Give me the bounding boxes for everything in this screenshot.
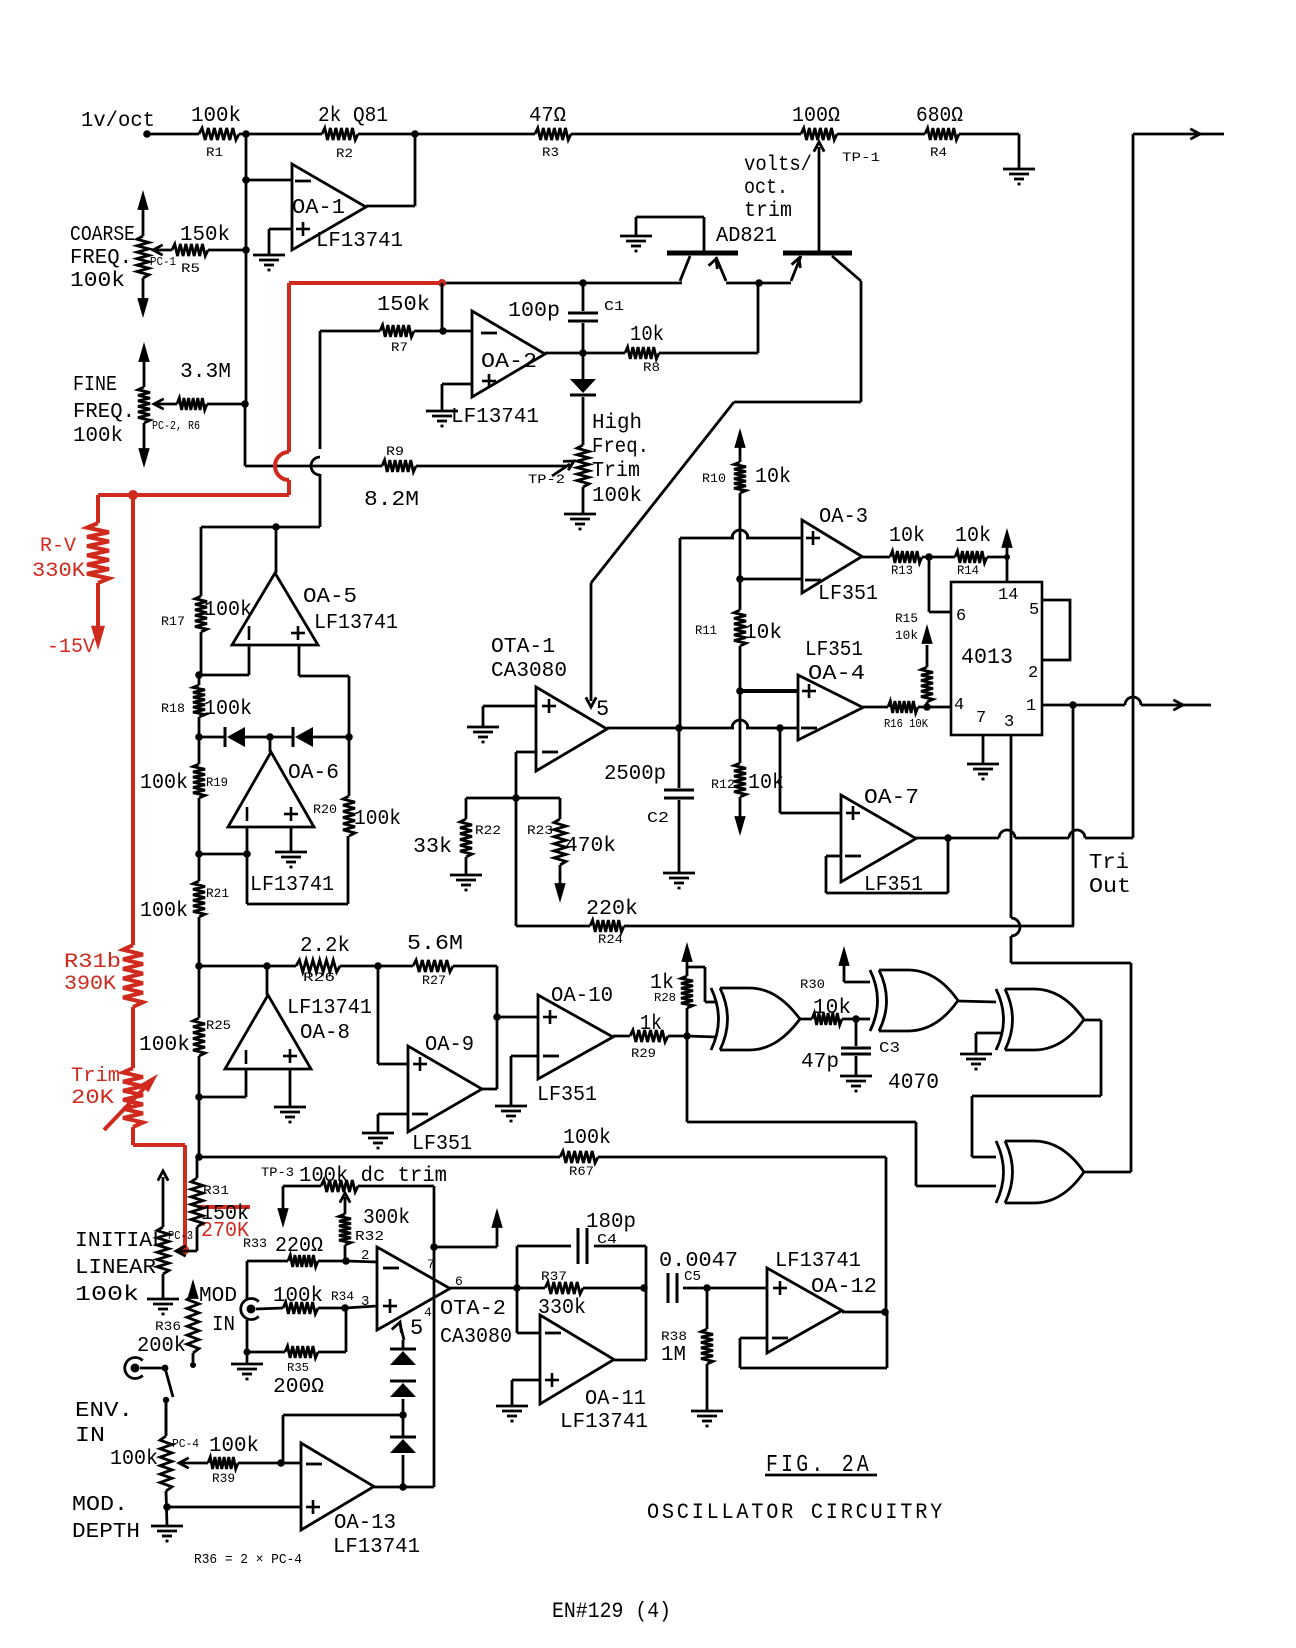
node — [266, 733, 274, 741]
svg-text:5.6M: 5.6M — [407, 933, 463, 956]
potentiometer PC-3 INITIAL LINEAR 100k — [75, 1171, 193, 1307]
svg-text:OA-8: OA-8 — [300, 1022, 350, 1045]
resistor R18 100k — [161, 675, 252, 737]
svg-text:10k: 10k — [889, 525, 925, 548]
wire OA-1 output — [366, 134, 415, 206]
resistor R17 100k — [161, 527, 252, 675]
jack ENV IN — [75, 1357, 168, 1448]
op-amp OA-13 LF13741 — [301, 1443, 420, 1559]
svg-text:C3: C3 — [879, 1040, 900, 1057]
svg-text:Trim: Trim — [71, 1065, 120, 1088]
capacitor C4 180p — [517, 1211, 646, 1288]
svg-text:INITIAL: INITIAL — [75, 1230, 165, 1253]
svg-text:R17: R17 — [161, 614, 185, 629]
svg-text:1: 1 — [1026, 697, 1036, 716]
svg-text:LF351: LF351 — [818, 583, 878, 606]
diode CR6 — [293, 727, 349, 747]
svg-text:R14: R14 — [957, 563, 979, 578]
wire — [837, 133, 925, 136]
wire TP-1 wiper — [814, 142, 824, 251]
op-amp OTA-2 CA3080 — [377, 1247, 512, 1349]
svg-text:FREQ.: FREQ. — [70, 247, 132, 270]
svg-text:R20: R20 — [313, 802, 337, 817]
capacitor C3 47p — [801, 1019, 900, 1076]
svg-text:100k: 100k — [140, 772, 188, 795]
node — [342, 1257, 350, 1265]
wire — [199, 1156, 560, 1159]
wire — [515, 798, 518, 926]
node — [923, 703, 931, 711]
wire OA-12 out — [842, 1311, 887, 1314]
wire emitter line — [442, 282, 682, 285]
diode CR5 — [199, 727, 245, 747]
svg-text:R29: R29 — [631, 1046, 656, 1061]
wire — [283, 1415, 403, 1463]
transistor Q2 AD821 — [783, 253, 861, 281]
wire OTA-1 output — [607, 720, 798, 728]
svg-text:R30: R30 — [800, 977, 825, 992]
svg-text:7: 7 — [976, 709, 986, 728]
wire — [441, 283, 444, 331]
svg-text:LF351: LF351 — [805, 639, 863, 662]
node — [925, 553, 933, 561]
xor gate G1 — [711, 988, 800, 1050]
node — [438, 279, 446, 287]
svg-text:C1: C1 — [604, 299, 624, 315]
wire — [687, 967, 716, 1002]
op-amp OA-4 LF351 — [798, 639, 865, 740]
resistor R27 5.6M — [378, 933, 497, 988]
resistor R20 100k — [313, 737, 401, 836]
svg-text:R1: R1 — [206, 145, 223, 160]
capacitor C2 2500p — [604, 728, 694, 873]
resistor R9 8.2M — [364, 444, 570, 512]
node — [736, 575, 744, 583]
svg-text:DEPTH: DEPTH — [72, 1521, 140, 1544]
svg-text:3: 3 — [361, 1294, 369, 1310]
op-amp OA-11 LF13741 — [540, 1315, 648, 1434]
svg-text:OA-11: OA-11 — [585, 1388, 646, 1411]
svg-text:100k: 100k — [204, 698, 252, 721]
svg-text:150k: 150k — [377, 294, 430, 317]
svg-text:PC-3: PC-3 — [168, 1229, 193, 1243]
wire OA-7 feedback — [826, 838, 948, 893]
resistor R4 680 — [916, 105, 963, 160]
svg-text:LF13741: LF13741 — [314, 612, 398, 635]
ground — [151, 1526, 183, 1541]
svg-text:10k: 10k — [955, 525, 991, 548]
resistor R13 10k — [862, 525, 925, 578]
wire OA-3 -in — [740, 578, 802, 581]
node — [579, 349, 587, 357]
svg-text:4070: 4070 — [888, 1070, 939, 1095]
wire — [245, 404, 382, 466]
node — [341, 1304, 349, 1312]
svg-text:LF13741: LF13741 — [451, 406, 539, 429]
op-amp OA-6 — [228, 737, 339, 897]
wire — [199, 645, 249, 675]
wire OA-11 out — [614, 1288, 646, 1360]
svg-text:TP-2: TP-2 — [528, 472, 565, 487]
wire — [856, 1018, 870, 1021]
ground — [496, 1406, 528, 1421]
svg-text:OA-3: OA-3 — [819, 506, 868, 529]
svg-text:10k: 10k — [630, 324, 664, 347]
ground — [467, 727, 499, 742]
svg-text:150k: 150k — [201, 1203, 249, 1226]
wire G2 in1 supply — [838, 946, 870, 982]
svg-text:OA-5: OA-5 — [303, 586, 357, 609]
svg-text:OA-7: OA-7 — [864, 787, 919, 810]
svg-text:IN: IN — [75, 1425, 105, 1448]
wire OA-4 +in — [740, 689, 798, 693]
svg-text:PC-2, R6: PC-2, R6 — [152, 419, 200, 433]
wire pin 3 clock — [1011, 735, 1131, 1172]
svg-text:R4: R4 — [930, 145, 947, 160]
ground — [274, 1107, 306, 1122]
svg-text:R33: R33 — [243, 1236, 267, 1251]
wire — [571, 133, 801, 136]
svg-text:MOD: MOD — [199, 1285, 237, 1308]
svg-text:OA-12: OA-12 — [811, 1276, 877, 1299]
label EN#129 (4) — [552, 1599, 671, 1624]
resistor R19 100k — [140, 737, 228, 854]
wire R-V supply (red) — [98, 283, 442, 495]
capacitor C1 100p — [508, 283, 624, 353]
resistor R31 150k — [191, 1157, 249, 1251]
node — [345, 733, 353, 741]
wire — [246, 179, 292, 182]
diode CR4 — [390, 1415, 416, 1487]
svg-text:R28: R28 — [654, 991, 676, 1005]
svg-text:100p: 100p — [508, 300, 560, 323]
node — [272, 523, 280, 531]
svg-text:R3: R3 — [542, 145, 559, 160]
resistor R30 10k — [800, 977, 856, 1025]
node — [195, 1093, 203, 1101]
svg-text:2500p: 2500p — [604, 763, 666, 786]
svg-text:33k: 33k — [413, 836, 452, 859]
svg-text:OA-1: OA-1 — [292, 197, 345, 220]
ground — [495, 1106, 527, 1121]
wire — [239, 133, 322, 136]
svg-text:C4: C4 — [597, 1232, 617, 1248]
node — [683, 1032, 691, 1040]
op-amp OA-7 LF351 — [841, 787, 923, 897]
wire — [345, 1308, 348, 1352]
node — [195, 671, 203, 679]
wire — [442, 384, 472, 411]
node — [513, 1284, 521, 1292]
wire OA-6 feedback — [247, 836, 348, 904]
svg-text:220Ω: 220Ω — [275, 1235, 323, 1258]
label MOD DEPTH — [72, 1494, 140, 1544]
wire — [687, 1036, 716, 1037]
svg-text:R-V: R-V — [40, 535, 76, 558]
resistor R-V 330K (red) — [32, 495, 109, 650]
wire — [483, 706, 536, 727]
wire G4 out — [1084, 1171, 1131, 1174]
svg-text:R25: R25 — [206, 1018, 231, 1033]
node B — [411, 130, 419, 138]
svg-text:R26: R26 — [303, 970, 335, 985]
resistor R37 330k — [517, 1269, 644, 1320]
svg-text:R9: R9 — [386, 444, 404, 459]
wire — [885, 1157, 888, 1312]
diode CR2 — [390, 1340, 416, 1365]
wire G3 in2 ground — [976, 1033, 1002, 1054]
resistor R7 150k — [320, 294, 472, 355]
svg-text:R35: R35 — [287, 1361, 309, 1375]
wire — [496, 966, 499, 1089]
label 270K replacement (red) — [198, 1207, 250, 1243]
wire pin5 — [392, 1316, 423, 1341]
ground — [253, 255, 285, 270]
svg-text:TP-1: TP-1 — [842, 150, 880, 165]
svg-text:R11: R11 — [695, 623, 717, 638]
wire — [1072, 705, 1075, 926]
resistor R5 150k — [153, 224, 246, 276]
wire — [358, 133, 535, 136]
node -15V (red) — [47, 636, 95, 659]
wire right bus — [1133, 129, 1224, 838]
wire — [433, 1186, 436, 1247]
svg-text:R24: R24 — [598, 932, 623, 947]
wire — [345, 1294, 377, 1310]
resistor R28 1k — [650, 942, 693, 1036]
op-amp OA-5 — [232, 527, 398, 645]
wire — [958, 1001, 996, 1002]
svg-text:OTA-1: OTA-1 — [491, 636, 555, 659]
svg-text:OA-6: OA-6 — [288, 762, 339, 785]
resistor R22 33k — [413, 798, 516, 875]
ground — [450, 875, 482, 890]
resistor R67 100k — [560, 1127, 886, 1179]
wire feedback — [740, 1312, 887, 1368]
wire — [289, 1069, 292, 1107]
svg-text:OA-2: OA-2 — [481, 351, 537, 374]
node — [675, 724, 683, 732]
ground — [1003, 169, 1035, 184]
wire — [757, 283, 760, 353]
node — [1069, 701, 1077, 709]
svg-text:3.3M: 3.3M — [180, 361, 231, 384]
potentiometer PC-4 100k — [110, 1400, 199, 1526]
potentiometer PC-2 FINE FREQ 100k — [73, 342, 200, 468]
wire — [245, 736, 293, 739]
svg-text:100k: 100k — [273, 1285, 323, 1308]
wire G4 in2 — [687, 1036, 996, 1186]
op-amp OA-10 LF351 — [537, 985, 613, 1107]
resistor R23 470k — [516, 798, 616, 903]
wire — [245, 134, 248, 404]
svg-text:3: 3 — [1004, 713, 1014, 732]
svg-text:R16 10K: R16 10K — [884, 717, 929, 731]
node — [195, 733, 203, 741]
ground — [147, 1299, 179, 1314]
wire — [281, 1462, 301, 1465]
svg-text:C5: C5 — [684, 1269, 701, 1285]
svg-text:LF351: LF351 — [537, 1084, 597, 1107]
wire OTA-2 out — [450, 1287, 517, 1290]
label 4070 — [888, 1070, 939, 1095]
svg-text:-15V: -15V — [47, 636, 95, 659]
node — [242, 176, 250, 184]
svg-text:AD821: AD821 — [716, 225, 777, 248]
svg-text:100k: 100k — [354, 808, 401, 831]
svg-text:1v/oct: 1v/oct — [81, 110, 155, 133]
resistor R2 2k Q81 — [318, 105, 388, 161]
op-amp OA-8 — [225, 966, 372, 1069]
svg-text:TP-3: TP-3 — [261, 1165, 294, 1180]
svg-text:100k: 100k — [191, 105, 241, 128]
svg-text:390K: 390K — [64, 973, 116, 996]
wire — [433, 1247, 436, 1487]
wire — [311, 331, 320, 527]
ground — [275, 852, 307, 867]
svg-text:Trim: Trim — [592, 460, 640, 483]
transistor Q1 AD821 — [636, 217, 738, 281]
resistor R14 10k — [922, 525, 1007, 578]
node — [263, 962, 271, 970]
label R36 note — [194, 1552, 302, 1568]
node — [430, 1243, 438, 1251]
wire — [726, 282, 791, 285]
node — [439, 327, 447, 335]
op-amp OTA-1 CA3080 — [491, 636, 607, 771]
svg-text:R31: R31 — [203, 1183, 229, 1198]
node — [195, 1153, 203, 1161]
wire main ladder — [198, 966, 201, 1157]
resistor R25 100k — [139, 1018, 231, 1057]
op-amp OA-3 LF351 — [802, 506, 878, 606]
svg-text:R36 = 2 × PC-4: R36 = 2 × PC-4 — [194, 1552, 302, 1568]
svg-text:R32: R32 — [355, 1229, 384, 1245]
svg-text:volts/: volts/ — [744, 154, 812, 177]
svg-text:4: 4 — [424, 1305, 432, 1320]
svg-text:R8: R8 — [643, 360, 660, 375]
svg-text:100k: 100k — [139, 1034, 190, 1057]
op-amp OA-2 — [451, 311, 545, 429]
svg-text:R19: R19 — [206, 775, 228, 790]
resistor R8 10k — [583, 324, 758, 375]
svg-text:6: 6 — [956, 607, 966, 626]
svg-text:680Ω: 680Ω — [916, 105, 963, 128]
svg-text:R38: R38 — [661, 1329, 687, 1344]
svg-text:300k: 300k — [363, 1207, 410, 1230]
wire — [269, 229, 292, 255]
resistor R15 10k — [895, 611, 933, 707]
wire pin 1 output — [1042, 697, 1211, 710]
label OSCILLATOR CIRCUITRY — [647, 1500, 945, 1525]
svg-text:R22: R22 — [475, 823, 501, 838]
svg-text:R67: R67 — [569, 1164, 594, 1179]
svg-text:10k: 10k — [755, 466, 791, 489]
wire — [516, 752, 536, 798]
potentiometer PC-1 COARSE FREQ 100k — [70, 190, 176, 318]
svg-text:Out: Out — [1089, 876, 1131, 899]
svg-text:100k: 100k — [563, 1127, 611, 1150]
svg-text:47Ω: 47Ω — [529, 105, 566, 128]
wire — [511, 1056, 538, 1106]
node — [399, 1483, 407, 1491]
xor gate G3 — [996, 989, 1084, 1050]
svg-text:R31b: R31b — [64, 951, 121, 974]
ground — [840, 1076, 872, 1091]
wire — [165, 1400, 168, 1436]
wire OA-3 +in — [680, 530, 802, 728]
svg-text:R18: R18 — [161, 701, 185, 716]
node — [493, 1013, 501, 1021]
wire OA-7 +in — [780, 728, 841, 813]
resistor R16 10k — [863, 701, 951, 731]
wire pin5-pin2 jumper — [1042, 600, 1070, 660]
svg-text:47p: 47p — [801, 1051, 839, 1074]
svg-text:100k: 100k — [110, 1448, 158, 1471]
wire G3 out to G4 — [972, 1020, 1101, 1157]
resistor R33 220 — [243, 1235, 346, 1267]
wire supply — [434, 1208, 503, 1247]
svg-text:R23: R23 — [527, 823, 553, 838]
wire Q2 collector to OTA-1 pin5 — [586, 281, 861, 707]
svg-text:High: High — [592, 412, 642, 435]
wire — [959, 134, 1019, 169]
svg-text:LF13741: LF13741 — [250, 874, 334, 897]
wire OA-2 out — [545, 352, 583, 355]
wire — [167, 1506, 301, 1509]
label FIG. 2A — [765, 1452, 877, 1479]
svg-text:R39: R39 — [212, 1471, 235, 1486]
node — [703, 1284, 711, 1292]
svg-text:oct.: oct. — [744, 177, 788, 200]
svg-text:470k: 470k — [565, 835, 616, 858]
resistor R36 200k — [137, 1279, 199, 1368]
svg-text:5: 5 — [410, 1316, 423, 1341]
svg-text:LF13741: LF13741 — [333, 1536, 420, 1559]
resistor R38 1M — [661, 1288, 713, 1411]
svg-text:R36: R36 — [155, 1319, 181, 1334]
svg-text:LF13741: LF13741 — [560, 1411, 648, 1434]
svg-text:100k dc trim: 100k dc trim — [299, 1165, 447, 1188]
svg-text:4: 4 — [954, 696, 964, 715]
svg-text:R7: R7 — [391, 340, 408, 355]
svg-text:14: 14 — [998, 586, 1018, 605]
ground — [663, 873, 695, 888]
svg-text:100k: 100k — [140, 900, 188, 923]
ground — [362, 1133, 394, 1148]
resistor R35 200 — [247, 1346, 346, 1399]
svg-text:R12: R12 — [711, 777, 735, 792]
svg-text:R21: R21 — [206, 886, 229, 901]
resistor R12 10k — [711, 691, 784, 836]
IC U1 4013 — [951, 582, 1042, 735]
wire — [147, 133, 199, 136]
resistor R3 47 — [529, 105, 571, 160]
ground — [231, 1348, 263, 1379]
node — [736, 687, 744, 695]
svg-text:150k: 150k — [180, 224, 230, 247]
ground — [960, 1054, 992, 1069]
capacitor C5 0.0047 — [659, 1250, 738, 1303]
wire wiper — [176, 1246, 197, 1256]
svg-text:1M: 1M — [661, 1344, 686, 1367]
svg-text:LF13741: LF13741 — [775, 1250, 861, 1273]
wire — [290, 827, 293, 852]
svg-text:OA-4: OA-4 — [808, 663, 865, 686]
wire red bus — [131, 495, 135, 945]
svg-text:ENV.: ENV. — [75, 1400, 133, 1423]
resistor R31b 390K (red) — [64, 945, 143, 1007]
